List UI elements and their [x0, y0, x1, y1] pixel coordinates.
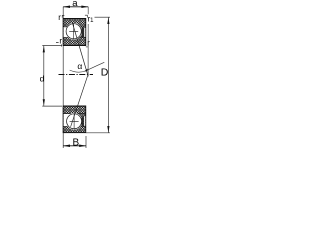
pressure-center extension line (lower part): [87, 24, 89, 77]
contact line lower: [71, 74, 89, 127]
lower bearing section: [63, 106, 85, 133]
a left arrow: [63, 6, 70, 9]
left face extension line (full height): [62, 7, 64, 148]
angle alpha swoosh arc: [70, 62, 105, 72]
D bottom extension line: [86, 132, 110, 134]
svg-text:r: r: [87, 39, 90, 48]
lower rings hatched block: [63, 106, 85, 133]
d down arrow: [43, 99, 45, 106]
label r bottom-right: [86, 39, 90, 48]
svg-text:d: d: [40, 74, 45, 84]
d up arrow: [43, 46, 45, 53]
B right extension line: [85, 136, 87, 148]
dimension a (top): [63, 0, 88, 9]
lower band boundary lines: [63, 114, 85, 127]
lower ball crosshair: [70, 113, 79, 129]
D up arrow: [107, 17, 109, 24]
upper rings hatched block: [63, 19, 85, 46]
upper band boundary lines: [63, 27, 85, 38]
d lower extension line: [42, 105, 62, 107]
d upper extension line: [42, 44, 61, 46]
label r top-left: [58, 13, 64, 22]
svg-text:B: B: [73, 138, 80, 149]
a dim line: [63, 6, 88, 8]
svg-text:r: r: [58, 13, 61, 22]
D dim line: [107, 17, 109, 132]
svg-text:D: D: [101, 67, 109, 79]
D down arrow: [107, 126, 109, 133]
upper raceway white gap: [65, 23, 82, 40]
contact line upper: [72, 23, 88, 77]
svg-text:r: r: [59, 37, 62, 46]
d dim line: [43, 46, 45, 106]
B dim line: [63, 145, 86, 147]
label r bottom-left: [56, 37, 62, 47]
pressure-center extension line (upper part): [87, 7, 89, 14]
lower raceway left relief channel: [64, 114, 75, 126]
lower ball: [67, 114, 82, 129]
upper bearing section: [63, 19, 85, 46]
label r1 top-right: [85, 15, 94, 25]
dimension d (left): [40, 45, 62, 106]
a right arrow: [81, 6, 88, 9]
upper raceway left relief channel: [64, 27, 74, 37]
svg-text:a: a: [72, 0, 78, 9]
svg-text:α: α: [77, 61, 82, 71]
D top extension line: [95, 16, 111, 18]
upper ball: [66, 24, 81, 39]
lower inner-ring shoulder dark band: [82, 116, 84, 126]
lower raceway white gap: [66, 113, 83, 130]
dimension D (right): [86, 17, 110, 133]
upper ball crosshair: [69, 23, 78, 40]
upper inner-ring shoulder dark band: [82, 27, 84, 37]
B left arrow: [63, 145, 70, 148]
B right arrow: [79, 145, 86, 148]
dimension B (bottom): [63, 136, 86, 149]
swoosh arrowhead: [84, 69, 87, 72]
svg-text:1: 1: [90, 18, 94, 24]
axis center line (dash-dot): [59, 74, 94, 76]
